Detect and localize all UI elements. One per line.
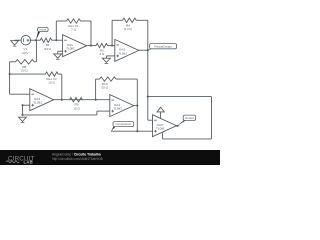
resistor Res X1 [67,19,81,32]
node Res X2 feedback [61,99,63,101]
wire OA4 out stub [134,105,138,107]
wire loop top [148,96,212,98]
svg-text:2 Ω: 2 Ω [99,52,105,56]
resistor R10 [100,77,117,90]
wire OA4 out down vertical [136,106,138,132]
flag Comparison [111,122,134,132]
power flag VCC on OA5 [157,107,164,118]
wire R10 right vertical [136,79,138,106]
wire V1 to R1 [31,39,41,41]
wire OA5 minus lead [148,119,153,121]
node input junction [35,39,37,41]
svg-text:Input: Input [40,28,47,32]
wire R4 top left [112,19,122,21]
wire Res X2 right lead [58,73,62,75]
wire OA5 out [177,125,180,127]
ground G2 [103,58,111,63]
wire loop right [211,97,213,139]
wire R4 right vertical + ParcialOutput net down to OA5 [147,20,149,120]
wire OA2 out [139,49,148,51]
wire loop bottom [162,138,211,140]
node R10 branch [95,99,97,101]
svg-text:TL081: TL081 [33,101,42,105]
wire feedback right vertical [90,21,92,46]
svg-text:LAB: LAB [24,160,34,165]
resistor Res X2 [45,72,58,85]
node feedback Res X1 [55,39,57,41]
svg-text:7 Ω: 7 Ω [71,28,77,32]
svg-text:TL081: TL081 [118,51,127,55]
wire R2 to OA2 [108,45,115,47]
node OA3 ground junction [21,114,23,116]
node OA4 out [136,105,138,107]
wire feedback top left [56,20,66,22]
ground G0 [11,41,19,46]
node R4 branch [111,45,113,47]
svg-text:20 V: 20 V [22,51,29,55]
wire Comparison rail [111,130,153,132]
flag ParcialOutput [148,44,177,51]
op-amp OA4 [110,95,134,117]
svg-text:20 Ω: 20 Ω [21,68,28,72]
node OA1 out [90,45,92,47]
resistor R9 [70,98,83,111]
footer bar [0,150,220,165]
ground G1 [54,54,62,59]
flag Input [36,27,48,40]
node Output [176,125,178,127]
flag Output [177,115,196,126]
svg-text:TL081: TL081 [113,107,122,111]
node Res X2 branch [9,73,11,75]
op-amp OA1 [63,35,87,57]
wire OA3 out rail [54,99,110,101]
wire feedback left vertical [55,21,57,40]
wire R8 left lead [10,61,16,63]
wire R10 left vertical [95,79,97,100]
wire OA3 plus lead [23,104,30,106]
wire R4 top right [136,19,148,21]
wire feedback top right [81,20,92,22]
svg-text:6.4 Ω: 6.4 Ω [124,27,132,31]
wire V1 to ground [15,39,22,41]
wire R4 left vertical [111,20,113,45]
svg-text:TL081: TL081 [66,47,75,51]
node comparison junction [136,130,138,132]
voltage source V1 [21,35,31,54]
svg-text:Comparison: Comparison [116,122,132,126]
resistor R8 [16,60,35,73]
wire R1 to OA1 [52,39,63,41]
svg-text:10 Ω: 10 Ω [73,106,80,110]
svg-text:Output: Output [185,116,194,120]
svg-text:64 Ω: 64 Ω [44,47,51,51]
wire R10 left lead [96,78,100,80]
wire OA2 plus lead [106,55,114,57]
resistor R1 [40,38,51,51]
op-amp OA3 [30,89,54,111]
wire OA3 minus lead [9,62,11,94]
wire ground rail to OA4 plus [23,114,97,116]
wire loop stub to OA5 vee pin [161,133,163,139]
wire R10 right lead [116,78,137,80]
wire Res X2 right vertical [61,74,63,100]
wire Res X2 left lead [10,73,46,75]
wire R8 right lead [34,61,36,63]
resistor R4 [123,18,137,31]
op-amp OA5 [153,115,177,137]
node feedback loop top [147,96,149,98]
op-amp OA2 [115,39,139,61]
wire OA1 plus lead [58,50,63,52]
svg-text:10 Ω: 10 Ω [48,81,55,85]
wire node to R8 vertical [35,40,37,62]
wire OA1 out rail [87,45,96,47]
svg-text:ParcialOutput: ParcialOutput [154,44,172,48]
ground G3 [19,117,27,122]
svg-text:http://circuitlab.com/c8dd476a: http://circuitlab.com/c8dd476ab9r38 [52,157,103,161]
resistor R2 [96,43,108,56]
svg-text:TL081: TL081 [156,127,165,131]
node ParcialOutput [147,49,149,51]
svg-text:10 Ω: 10 Ω [101,86,108,90]
